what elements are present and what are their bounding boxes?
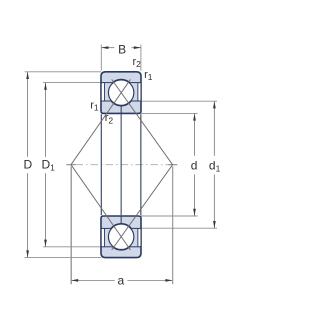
top bearing outer ring land line right [130,82,141,84]
extension line a left [70,167,72,285]
extension line D top [25,71,101,73]
bottom bearing inner ring split [120,216,122,224]
top bearing inner ring land line left [101,100,110,102]
bottom bearing ball [108,224,133,249]
bottom bearing slot edge right [137,229,139,247]
top bearing face slot left (white) [102,83,104,100]
svg-text:B: B [118,42,126,56]
dimension line B [102,47,115,49]
contact line upper left [71,79,131,164]
contact line lower left [71,165,131,250]
top bearing inner ring land line right [132,100,141,102]
top bearing ball [108,80,133,105]
arrow d top [193,114,196,121]
bottom bearing outer raceway arc [112,247,130,250]
contact line upper right [112,79,173,164]
extension line d bottom [141,215,198,217]
arrow D bottom [26,250,29,257]
extension line D1 top [43,82,101,84]
arrow B right [134,46,141,49]
svg-text:a: a [118,273,125,287]
arrow a right [165,279,172,282]
extension line d1 bottom [141,227,217,229]
top bearing inner ring split [120,105,122,113]
dimension line D1 [45,83,47,157]
arrow d1 bottom [213,221,216,228]
dimension line d [194,113,196,155]
extension line B left [100,45,102,71]
extension line a right [172,167,174,285]
arrow d1 top [213,101,216,108]
arrow D top [26,72,29,79]
arrow a left [71,279,78,282]
svg-text:D: D [23,158,32,172]
bottom bearing face slot left (white) [102,229,104,246]
extension line D bottom [25,257,101,259]
dimension line d1 [213,101,215,156]
top bearing outer rect [101,72,141,114]
bottom bearing inner ring land line right [132,227,141,229]
arrow B left [101,46,108,49]
arrow D1 top [44,83,47,90]
bottom bearing outer ring land line left [101,246,112,248]
top bearing outer ring land line left [101,82,112,84]
contact line lower right [112,165,173,250]
extension line D1 bottom [43,246,101,248]
svg-text:d: d [191,158,198,172]
bottom bearing inner raceway arc [111,223,132,228]
bottom bearing outer rect [101,216,141,258]
bore edge line right (between rings) [140,114,142,215]
bottom bearing face slot right (white) [138,229,140,246]
bottom bearing inner ring land line left [101,227,110,229]
bore edge line left (between rings) [100,114,102,215]
top bearing inner raceway arc [111,101,132,106]
dimension line D [27,72,29,157]
inner ring split plane line [120,114,122,215]
arrow D1 bottom [44,240,47,247]
dimension line a [71,279,115,281]
top bearing face slot right (white) [138,83,140,100]
bottom bearing outer ring land line right [130,246,141,248]
top bearing outer raceway arc [112,79,130,82]
centerline (bearing axis) [67,164,76,166]
top bearing slot edge right [137,83,139,101]
arrow d bottom [193,209,196,216]
bottom bearing slot edge left [104,229,106,247]
extension line B right [140,45,142,71]
top bearing slot edge left [104,83,106,101]
extension line d top [141,112,198,114]
extension line d1 top [141,100,217,102]
